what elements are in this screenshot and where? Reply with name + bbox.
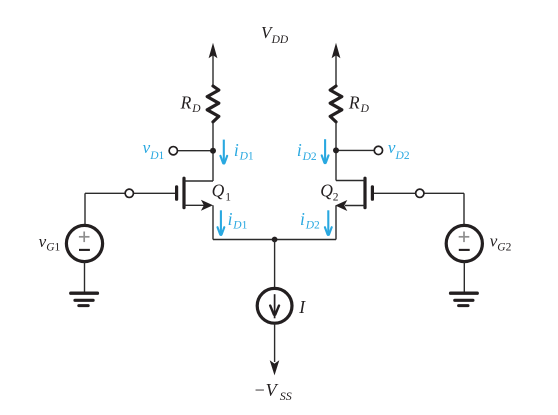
svg-text:G2: G2 xyxy=(497,242,511,254)
Q1 source lead xyxy=(184,204,204,206)
Q1 source arrowhead xyxy=(201,200,213,211)
node drain left xyxy=(210,148,216,154)
ground left xyxy=(71,293,98,305)
wire gate down right xyxy=(463,193,465,225)
label VDD xyxy=(261,23,289,46)
Q2 source lead xyxy=(345,205,365,207)
wire gate right xyxy=(374,192,464,194)
svg-text:R: R xyxy=(348,93,360,113)
resistor RD right xyxy=(330,86,342,122)
Q2 drain lead xyxy=(336,180,365,182)
Q2 source arrowhead xyxy=(335,200,347,211)
source vG1 xyxy=(66,225,102,261)
label iD2 source xyxy=(300,209,320,232)
current arrow iD1 drain xyxy=(220,140,227,165)
label RD left xyxy=(180,92,202,115)
arrow to VDD right xyxy=(332,43,341,59)
label Q1 xyxy=(212,180,232,203)
label RD right xyxy=(348,93,370,116)
Q1 channel bar xyxy=(182,178,185,207)
wire VDD lead right xyxy=(335,55,337,87)
terminal vD1 xyxy=(169,147,177,155)
svg-text:D1: D1 xyxy=(149,150,164,162)
wire current source to VSS xyxy=(274,323,276,362)
wire source Q1 down xyxy=(212,205,214,239)
svg-text:R: R xyxy=(180,92,192,112)
wire vG1 to ground xyxy=(84,262,86,292)
wire gate down left xyxy=(84,193,86,225)
wire drain branch left xyxy=(212,122,214,181)
label iD1 source xyxy=(228,209,248,232)
terminal vD2 xyxy=(374,146,382,154)
arrow to VDD left xyxy=(209,43,218,59)
svg-text:Q: Q xyxy=(320,180,333,200)
svg-text:D2: D2 xyxy=(302,151,317,163)
svg-text:i: i xyxy=(297,140,302,160)
current arrow iD2 source xyxy=(325,210,332,236)
current arrow iD2 drain xyxy=(322,139,329,164)
Q1 gate bar xyxy=(175,187,178,199)
svg-text:D: D xyxy=(360,103,370,115)
label iD1 drain xyxy=(234,140,254,163)
Q1 drain lead xyxy=(184,180,213,182)
label vG1 xyxy=(39,232,61,254)
wire drain branch right xyxy=(335,122,337,181)
label iD2 drain xyxy=(297,140,317,163)
resistor RD left xyxy=(207,86,219,122)
wire common node to current source xyxy=(274,240,276,289)
wire gate left xyxy=(85,192,175,194)
node common source xyxy=(272,237,278,243)
wire common rail left xyxy=(213,239,275,241)
svg-text:D2: D2 xyxy=(395,150,410,162)
svg-text:2: 2 xyxy=(333,191,339,203)
terminal gate right xyxy=(416,189,424,197)
wire VDD lead left xyxy=(212,55,214,87)
label vD2 xyxy=(388,138,410,162)
svg-text:D1: D1 xyxy=(232,220,247,232)
label Q2 xyxy=(320,180,339,203)
Q2 gate bar xyxy=(371,187,374,199)
Q2 channel bar xyxy=(363,178,366,207)
transistor Q1 xyxy=(177,178,213,211)
wire to vD1 terminal xyxy=(175,150,213,152)
svg-text:SS: SS xyxy=(280,389,292,403)
svg-text:i: i xyxy=(300,209,305,229)
plus vG2 xyxy=(459,232,470,243)
transistor Q2 xyxy=(335,178,372,211)
svg-text:i: i xyxy=(234,140,239,160)
svg-text:Q: Q xyxy=(212,180,225,200)
minus vG2 xyxy=(459,249,470,251)
label vD1 xyxy=(143,138,165,162)
svg-text:D: D xyxy=(191,103,201,115)
label -VSS xyxy=(254,380,292,403)
current arrow iD1 source xyxy=(218,210,225,236)
wire vG2 to ground xyxy=(463,262,465,292)
current source arrow xyxy=(270,294,279,318)
current source I xyxy=(257,288,292,323)
svg-text:G1: G1 xyxy=(46,242,60,254)
minus vG1 xyxy=(79,249,90,251)
svg-text:i: i xyxy=(228,209,233,229)
svg-text:D1: D1 xyxy=(239,151,254,163)
plus vG1 xyxy=(79,232,90,243)
arrow to -VSS xyxy=(270,360,280,375)
node drain right xyxy=(333,147,339,153)
svg-text:−V: −V xyxy=(254,380,279,400)
ground right xyxy=(451,293,478,305)
label vG2 xyxy=(490,232,512,254)
wire to vD2 terminal xyxy=(336,149,376,151)
svg-text:DD: DD xyxy=(271,34,289,46)
wire source Q2 down xyxy=(335,206,337,240)
svg-text:1: 1 xyxy=(225,191,231,203)
source vG2 xyxy=(446,225,482,261)
svg-text:D2: D2 xyxy=(305,220,320,232)
wire common rail right xyxy=(275,239,336,241)
svg-text:I: I xyxy=(298,297,306,317)
terminal gate left xyxy=(125,189,133,197)
